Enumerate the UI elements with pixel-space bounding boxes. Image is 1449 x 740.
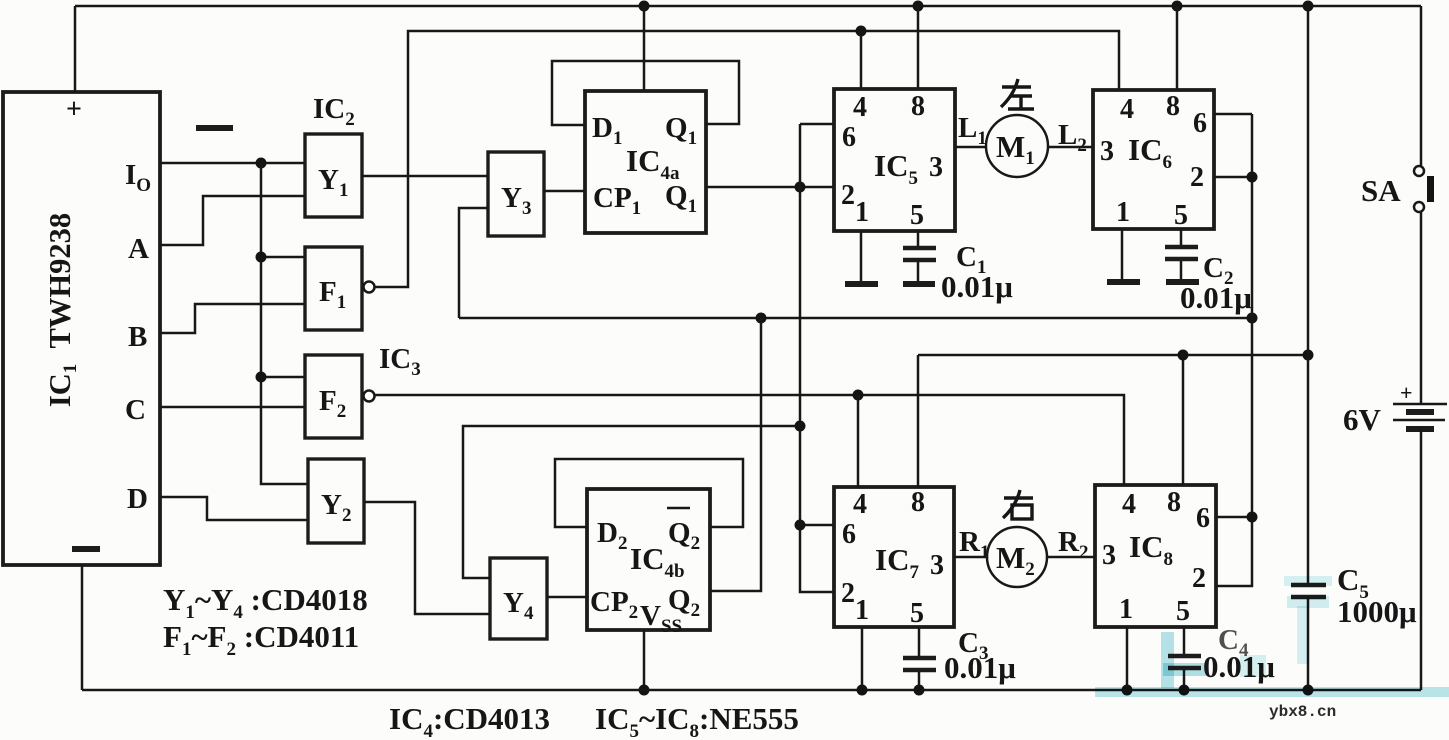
svg-text:1000μ: 1000μ xyxy=(1337,594,1417,629)
cyan scan artifact left of C4 label xyxy=(1240,655,1266,677)
node dot trigger bus / IC7 pin6 xyxy=(795,520,806,531)
node dot IC7 pin1 / ground rail xyxy=(857,685,868,696)
node dot top rail / IC4a xyxy=(639,1,650,12)
wire IC4a set pin drop from top rail xyxy=(643,6,646,91)
wire Y2 output to Y4 lower input xyxy=(364,502,490,614)
wire right rail down to switch SA xyxy=(1420,6,1423,166)
svg-text:IC8: IC8 xyxy=(1129,529,1173,570)
wire B output of IC1 to F1 lower input xyxy=(160,304,305,333)
wire C5 to ground rail xyxy=(1307,597,1310,690)
capacitor C1 0.01u xyxy=(903,241,1013,304)
capacitor C3 0.01u xyxy=(903,627,1016,685)
gate F2 (CD4011) xyxy=(305,355,375,438)
wire IC4b VSS to ground rail xyxy=(643,630,646,690)
wire IC5 pin3 to motor M1 xyxy=(955,146,986,149)
wire IC7 pin8 drop xyxy=(917,355,920,487)
svg-text:IC6: IC6 xyxy=(1128,132,1172,173)
svg-text:+: + xyxy=(66,94,82,125)
svg-text:6: 6 xyxy=(842,519,856,550)
svg-text:2: 2 xyxy=(841,180,855,211)
gate Y1 (CD4018) xyxy=(305,134,362,217)
ground symbol C1 xyxy=(903,281,935,287)
wire SA to battery xyxy=(1420,212,1423,404)
wire IC8 pin5 to C4 xyxy=(1183,627,1186,654)
svg-text:5: 5 xyxy=(1174,200,1188,231)
svg-text:3: 3 xyxy=(1102,540,1116,571)
node dot right trigger bus / IC8 pin6 xyxy=(1247,512,1258,523)
wire C1 lower lead xyxy=(917,262,920,281)
wire IC4b Q2 output riser to trigger line xyxy=(710,318,761,591)
wire IC8 pin1 to ground rail xyxy=(1126,627,1129,690)
ground symbol C2 xyxy=(1166,279,1199,285)
svg-text:IC5: IC5 xyxy=(874,148,918,189)
wire IC6 pin5 to C2 xyxy=(1180,229,1183,245)
svg-text:8: 8 xyxy=(911,487,925,518)
node dot IC8 pin1 / ground rail xyxy=(1122,685,1133,696)
node dot top rail / main right rail xyxy=(1303,1,1314,12)
wire C2 lower lead xyxy=(1180,261,1183,279)
ground rail bottom xyxy=(82,689,1421,692)
svg-text:IC2: IC2 xyxy=(313,93,355,130)
wire IC7 pin4 drop xyxy=(857,395,860,487)
svg-text:1: 1 xyxy=(855,595,869,626)
wire IC6 pin8 drop from top rail xyxy=(1176,6,1179,90)
wire IC6 pin2 stub xyxy=(1214,176,1252,179)
gate Y2 (CD4018) xyxy=(308,459,364,543)
wire Y3 lower input from Q2 trigger line xyxy=(459,208,488,318)
wire IC7 pin5 to C3 xyxy=(918,627,921,656)
svg-text:Q2: Q2 xyxy=(668,517,700,554)
wire battery minus to ground rail xyxy=(1420,429,1423,690)
svg-text:0.01μ: 0.01μ xyxy=(944,650,1016,685)
wire IC1 plus pin to top rail xyxy=(74,6,77,92)
svg-text:Y1: Y1 xyxy=(318,164,348,201)
timer IC8 (NE555) xyxy=(1095,485,1216,627)
svg-text:1: 1 xyxy=(1119,594,1133,625)
wire C output of IC1 to F2 lower input xyxy=(160,406,305,409)
capacitor C4 0.01u xyxy=(1168,624,1275,684)
cyan scan artifact under C5 xyxy=(1287,596,1329,608)
wire IC5 pin4 drop xyxy=(860,31,863,89)
node dot reset line / IC5 pin4 xyxy=(856,26,867,37)
svg-text:4: 4 xyxy=(853,92,867,123)
wire IC1 minus pin to ground rail xyxy=(81,565,84,690)
minus polarity mark above Y1 input xyxy=(196,125,233,131)
motor M1 left xyxy=(986,115,1048,177)
node dot top rail / IC6 pin8 xyxy=(1172,1,1183,12)
wire bus to F1 upper input xyxy=(261,256,305,259)
wire F1 output up to reset line of IC5 IC6 xyxy=(374,31,1119,287)
cyan scan artifact near C5 xyxy=(1284,576,1332,586)
svg-text:3: 3 xyxy=(1100,136,1114,167)
wire bus to F2 upper input xyxy=(261,376,305,379)
flip-flop IC4b (CD4013) xyxy=(587,489,710,637)
svg-text:R1: R1 xyxy=(959,526,989,563)
svg-text:6: 6 xyxy=(1193,108,1207,139)
node dot supply line / main right rail xyxy=(1303,350,1314,361)
svg-text:SA: SA xyxy=(1361,173,1401,208)
wire Y3 output to CP1 xyxy=(544,190,585,193)
cyan scan artifact C4 lower plate xyxy=(1163,663,1208,676)
node dot Q1 line / left trigger bus xyxy=(795,182,806,193)
wire IC5 pin6 stub xyxy=(800,123,834,126)
wire Y4 upper input from left trigger bus xyxy=(463,426,800,578)
svg-text:D2: D2 xyxy=(597,517,627,554)
wire IC6 pin6 stub xyxy=(1214,113,1252,116)
svg-text:5: 5 xyxy=(910,598,924,629)
svg-text:F2: F2 xyxy=(319,385,346,422)
node dot trigger line / IC4b Q2 riser xyxy=(756,313,767,324)
wire IC7 pin6 stub xyxy=(800,524,834,527)
node dot IO line to bus xyxy=(256,158,267,169)
svg-text:0.01μ: 0.01μ xyxy=(941,269,1013,304)
wire C4 to ground rail xyxy=(1183,670,1186,690)
wire IC8 pin8 drop xyxy=(1182,355,1185,485)
capacitor C5 1000u xyxy=(1291,562,1417,629)
label zuo (left) chinese character xyxy=(1001,79,1034,109)
IC1 TWH9238 decoder box xyxy=(3,92,160,565)
cyan scan artifact near C4 xyxy=(1161,632,1174,688)
supply line lower 555s xyxy=(918,354,1308,357)
node dot C4 / ground rail xyxy=(1179,685,1190,696)
wire IC4b feedback loop Q2bar to D2 xyxy=(555,459,743,527)
svg-text:IC1 TWH9238: IC1 TWH9238 xyxy=(43,213,81,407)
svg-text:M1: M1 xyxy=(996,129,1035,169)
node dot trigger bus / Y4 line xyxy=(795,421,806,432)
svg-text:CP1: CP1 xyxy=(593,182,641,219)
svg-text:8: 8 xyxy=(1166,91,1180,122)
svg-text:A: A xyxy=(128,233,149,265)
timer IC5 (NE555) xyxy=(834,89,955,231)
svg-text:B: B xyxy=(128,321,147,353)
svg-text:+: + xyxy=(1400,380,1413,405)
timer IC7 (NE555) xyxy=(834,487,954,629)
svg-text:Y2: Y2 xyxy=(321,489,351,526)
right trigger bus vertical (IC6 and IC8 pins 2,6) xyxy=(1216,114,1252,586)
gate F1 (CD4011) xyxy=(305,247,375,330)
ground symbol IC6 pin1 xyxy=(1107,279,1140,285)
node dot right trigger bus / IC6 pin2 xyxy=(1247,172,1258,183)
svg-text:IC3: IC3 xyxy=(379,343,421,380)
svg-text:IC4a: IC4a xyxy=(626,143,680,184)
wire C3 to ground rail xyxy=(918,672,921,690)
svg-text:CP2: CP2 xyxy=(590,586,638,623)
svg-text:4: 4 xyxy=(1122,489,1136,520)
svg-text:1: 1 xyxy=(1116,197,1130,228)
gate Y4 (CD4018) xyxy=(490,558,547,639)
wire Y1 output to Y3 upper input xyxy=(362,175,488,178)
motor M2 right xyxy=(987,527,1047,587)
trigger line from IC4b Q2 to IC6 and IC8 xyxy=(459,317,1252,320)
wire IC5 pin1 to ground xyxy=(860,231,863,281)
svg-text:8: 8 xyxy=(1167,487,1181,518)
svg-text:IC7: IC7 xyxy=(875,542,919,583)
wire IC7 pin3 to motor M2 xyxy=(954,556,988,559)
svg-text:F1: F1 xyxy=(319,276,346,313)
switch SA pushbutton xyxy=(1361,166,1434,212)
capacitor C2 0.01u xyxy=(1165,247,1252,315)
svg-text:C: C xyxy=(125,394,146,426)
wire motor M1 to IC6 pin3 xyxy=(1048,146,1093,149)
svg-text:2: 2 xyxy=(1190,162,1204,193)
svg-text:Y1~Y4 :CD4018: Y1~Y4 :CD4018 xyxy=(163,582,368,623)
svg-text:8: 8 xyxy=(911,91,925,122)
svg-text:Q1: Q1 xyxy=(665,180,697,217)
node dot supply line / IC8 pin8 xyxy=(1178,350,1189,361)
node dot VSS / ground rail xyxy=(639,685,650,696)
top supply rail xyxy=(75,5,1421,8)
svg-text:D: D xyxy=(127,483,148,515)
wire IO vertical bus to Y2 upper input xyxy=(261,163,308,484)
battery 6V xyxy=(1343,380,1447,437)
wire F2 output reset line of IC7 IC8 xyxy=(374,395,1124,485)
node dot bus / F1 input xyxy=(256,252,267,263)
svg-text:2: 2 xyxy=(841,578,855,609)
wire Y4 output to CP2 xyxy=(547,596,587,599)
svg-text:6: 6 xyxy=(1196,503,1210,534)
node dot bus / F2 input xyxy=(256,372,267,383)
svg-text:4: 4 xyxy=(853,489,867,520)
wire IO output of IC1 to Y1 xyxy=(160,162,305,165)
wire IC5 pin5 to C1 xyxy=(917,231,920,246)
node dot C5 / ground rail xyxy=(1303,685,1314,696)
svg-text:Q1: Q1 xyxy=(665,112,697,149)
left trigger bus vertical (IC5 and IC7 pins 2,6) xyxy=(800,124,835,592)
svg-text:L2: L2 xyxy=(1058,119,1087,156)
wire D output of IC1 to Y2 lower input xyxy=(160,497,308,520)
wire A output of IC1 to Y1 lower input xyxy=(160,196,305,245)
svg-text:Y4: Y4 xyxy=(503,587,534,624)
svg-text:3: 3 xyxy=(930,550,944,581)
node dot top rail / IC5 pin8 xyxy=(913,1,924,12)
svg-text:M2: M2 xyxy=(996,540,1035,580)
svg-text:2: 2 xyxy=(1192,563,1206,594)
svg-text:5: 5 xyxy=(1176,596,1190,627)
main right rail vertical xyxy=(1307,6,1310,585)
svg-text:4: 4 xyxy=(1120,94,1134,125)
svg-text:1: 1 xyxy=(855,197,869,228)
wire IC8 pin6 stub xyxy=(1216,516,1252,519)
svg-text:5: 5 xyxy=(910,200,924,231)
svg-text:Y3: Y3 xyxy=(501,182,531,219)
svg-text:3: 3 xyxy=(929,152,943,183)
node dot C3 / ground rail xyxy=(914,685,925,696)
svg-text:F1~F2 :CD4011: F1~F2 :CD4011 xyxy=(163,619,359,660)
svg-text:6V: 6V xyxy=(1343,402,1382,437)
wire IC7 pin1 to ground rail xyxy=(861,627,864,690)
svg-text:0.01μ: 0.01μ xyxy=(1180,280,1252,315)
svg-text:ybx8.cn: ybx8.cn xyxy=(1269,703,1336,721)
svg-text:IC5~IC8:NE555: IC5~IC8:NE555 xyxy=(595,701,799,740)
node dot reset line / IC7 pin4 xyxy=(853,390,864,401)
cyan scan artifact C5 rail xyxy=(1297,606,1309,664)
wire IC4a feedback loop Q1 to D1 xyxy=(552,61,739,125)
wire IC4a Q1 output to IC5 pin2 xyxy=(706,186,835,189)
wire IC5 pin8 drop from top rail xyxy=(917,6,920,89)
timer IC6 (NE555) xyxy=(1093,90,1214,231)
label you (right) chinese character xyxy=(1003,490,1033,519)
svg-text:D1: D1 xyxy=(592,112,622,149)
wire IC6 pin1 to ground xyxy=(1121,229,1124,279)
wire motor M2 to IC8 pin3 xyxy=(1047,556,1095,559)
gate Y3 (CD4018) xyxy=(488,152,544,236)
svg-text:IC4:CD4013: IC4:CD4013 xyxy=(389,701,550,740)
node dot trigger line / right trigger bus xyxy=(1247,313,1258,324)
flip-flop IC4a (CD4013) xyxy=(585,91,706,233)
svg-text:IO: IO xyxy=(125,159,151,196)
ground symbol IC5 pin1 xyxy=(845,281,878,287)
svg-text:6: 6 xyxy=(842,122,856,153)
svg-text:L1: L1 xyxy=(958,112,987,149)
cyan scan artifact along ground rail xyxy=(1095,687,1449,697)
